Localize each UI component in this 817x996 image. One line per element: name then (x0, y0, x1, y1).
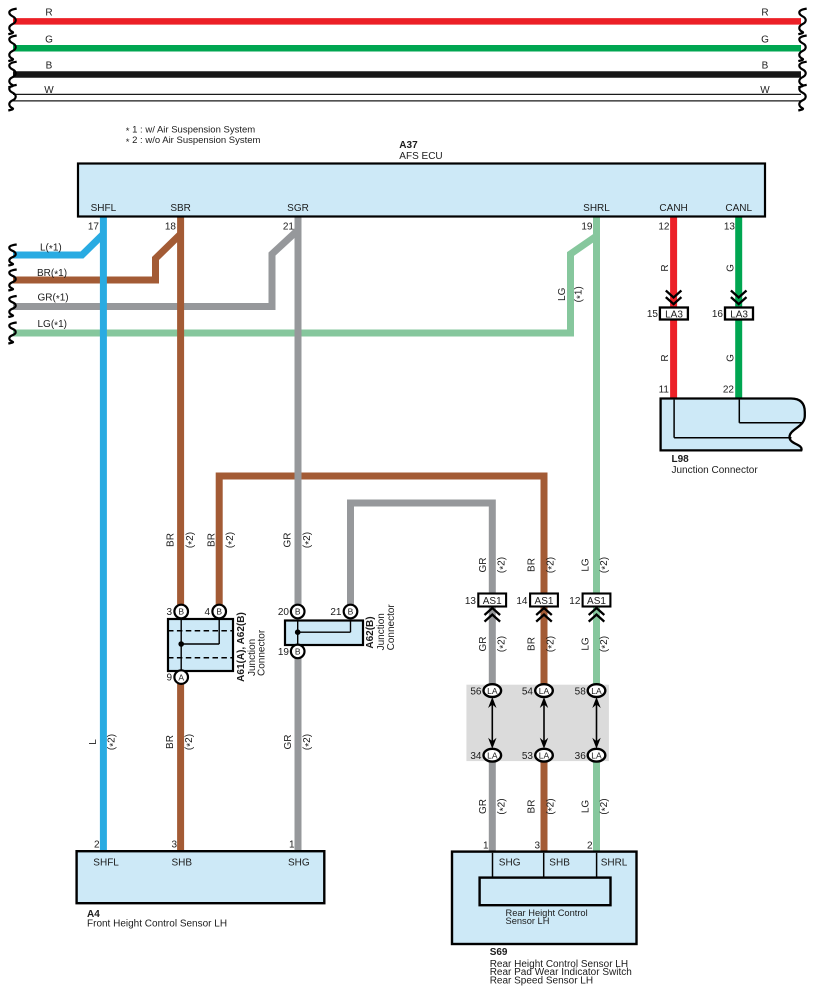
svg-text:12: 12 (658, 222, 670, 233)
svg-text:G: G (761, 34, 769, 45)
svg-text:1: 1 (289, 840, 295, 851)
svg-text:13: 13 (724, 222, 736, 233)
svg-text:BR: BR (526, 800, 537, 814)
connector LA pin 58 (575, 684, 606, 697)
svg-text:(*2): (*2) (599, 557, 612, 573)
svg-text:(*2): (*2) (545, 636, 558, 652)
ECU pin SHRL 19 (581, 203, 610, 233)
wire L main vertical (SHFL pin 17 to A4 pin 2) (100, 217, 107, 852)
svg-text:CANH: CANH (659, 203, 687, 214)
svg-text:3: 3 (534, 840, 540, 851)
svg-text:A37: A37 (399, 140, 418, 151)
connector LA pin 53 (522, 749, 553, 762)
svg-text:A62(B): A62(B) (365, 616, 376, 648)
svg-text:G: G (726, 264, 737, 272)
bus wire B (8, 61, 806, 88)
wire L(*1) stub (8, 234, 103, 266)
wire LG(*1) stub (8, 236, 596, 344)
svg-text:LA: LA (591, 750, 602, 760)
wire LG column (AS1 12 to LA 58) (593, 607, 600, 691)
svg-text:21: 21 (283, 222, 295, 233)
svg-text:R: R (660, 264, 671, 271)
svg-text:Rear Speed Sensor LH: Rear Speed Sensor LH (490, 976, 593, 987)
svg-text:(*1): (*1) (574, 286, 587, 302)
svg-text:(*2): (*2) (599, 636, 612, 652)
svg-text:12: 12 (569, 596, 581, 607)
svg-text:SHRL: SHRL (601, 858, 628, 869)
svg-text:AS1: AS1 (535, 596, 554, 607)
svg-text:B: B (295, 647, 301, 657)
svg-text:CANL: CANL (725, 203, 752, 214)
svg-text:53: 53 (522, 751, 534, 762)
wire BR branch (junction A61 pin 4 up and over to AS1 pin 14) (219, 476, 544, 605)
svg-text:B: B (762, 61, 769, 72)
svg-text:SHB: SHB (549, 858, 570, 869)
wire label GR (*2) above S69 pin 1 (478, 798, 510, 814)
svg-text:A: A (178, 672, 184, 682)
svg-text:LA: LA (539, 686, 550, 696)
wire label LG (*2) above S69 pin 2 (580, 798, 611, 814)
svg-text:A61(A), A62(B): A61(A), A62(B) (236, 612, 247, 682)
svg-text:W: W (760, 85, 770, 96)
svg-text:BR(*1): BR(*1) (37, 268, 67, 281)
svg-text:Front Height Control Sensor LH: Front Height Control Sensor LH (87, 919, 227, 930)
svg-text:B: B (348, 607, 354, 617)
svg-text:SHG: SHG (499, 858, 521, 869)
svg-text:BR: BR (165, 735, 176, 749)
svg-text:B: B (46, 61, 53, 72)
svg-text:(*2): (*2) (184, 734, 197, 750)
svg-text:(*2): (*2) (225, 532, 238, 548)
svg-text:LG: LG (580, 800, 591, 814)
wire label GR (*2) below AS1 13 (478, 636, 510, 652)
svg-text:SHB: SHB (172, 858, 193, 869)
svg-text:LA: LA (487, 750, 498, 760)
junction connector A61 (168, 612, 268, 682)
wire label BR (*2) at main brown upper (166, 532, 198, 548)
svg-text:(*2): (*2) (107, 734, 120, 750)
wire R CANH lower (LA3 to L98 pin 11) (660, 319, 673, 398)
ECU pin CANL 13 (724, 203, 753, 233)
svg-text:3: 3 (171, 840, 177, 851)
wire GR main upper (SGR pin 21 to junction A62 pin 20) (295, 217, 302, 605)
svg-text:18: 18 (165, 222, 177, 233)
S69 pin 3 SHB (534, 840, 570, 868)
svg-text:GR: GR (283, 533, 294, 548)
svg-text:22: 22 (723, 385, 735, 396)
svg-text:LA3: LA3 (665, 310, 683, 321)
wire GR column (LA 34 to S69 pin 1) (489, 755, 496, 852)
wire BR column (LA 53 to S69 pin 3) (541, 755, 548, 852)
svg-text:2: 2 (94, 840, 100, 851)
svg-text:3: 3 (166, 607, 172, 618)
svg-text:2: 2 (587, 840, 593, 851)
link arrow LA56-LA34 (488, 697, 496, 749)
svg-text:(*2): (*2) (545, 798, 558, 814)
ECU pin SGR 21 (283, 203, 309, 233)
svg-text:SHRL: SHRL (583, 203, 610, 214)
svg-text:(*2): (*2) (545, 557, 558, 573)
svg-text:LA: LA (591, 686, 602, 696)
junction A62 pin 20 (278, 605, 305, 619)
svg-text:G: G (726, 354, 737, 362)
sensor S69 box (452, 852, 637, 987)
svg-text:B: B (295, 607, 301, 617)
wire BR main upper (SBR pin 18 to junction A61 pin 3) (177, 217, 184, 605)
svg-text:AS1: AS1 (483, 596, 502, 607)
junction A61 pin 4 (204, 605, 226, 619)
svg-text:16: 16 (712, 309, 724, 320)
wire label BR (*2) above AS1 14 (526, 557, 558, 573)
svg-text:LG: LG (557, 287, 568, 301)
svg-text:R: R (761, 8, 768, 19)
svg-text:S69: S69 (490, 947, 508, 958)
svg-text:SHFL: SHFL (93, 858, 119, 869)
wire R CANH upper (pin 12 to LA3) (660, 217, 673, 308)
svg-text:9: 9 (166, 673, 172, 684)
svg-text:LA: LA (539, 750, 550, 760)
shielded ground panel (466, 685, 609, 761)
svg-text:R: R (660, 354, 671, 361)
svg-text:(*2): (*2) (302, 532, 315, 548)
wire G CANL upper (pin 13 to LA3) (726, 217, 739, 308)
svg-text:SHG: SHG (288, 858, 310, 869)
junction A61 pin 9 (166, 670, 188, 684)
connector AS1 pin 13 (465, 594, 506, 622)
wire GR column (AS1 13 to LA 56) (489, 607, 496, 691)
svg-text:LG: LG (580, 558, 591, 572)
connector LA pin 54 (522, 684, 553, 697)
wire BR main lower (junction A61 pin 9 to A4 pin 3) (177, 684, 184, 852)
svg-text:14: 14 (516, 596, 528, 607)
svg-text:1: 1 (483, 840, 489, 851)
A4 pin 2 SHFL (93, 840, 119, 869)
wire label GR (*2) gray column (283, 734, 315, 750)
wire label GR (*2) at main gray (283, 532, 315, 548)
link arrow LA58-LA36 (592, 697, 600, 749)
svg-text:BR: BR (207, 533, 218, 547)
svg-text:LG(*1): LG(*1) (38, 319, 67, 332)
svg-text:L98: L98 (672, 454, 690, 465)
wire LG column (LA 36 to S69 pin 2) (593, 755, 600, 852)
connector LA3 pin 15 (647, 291, 688, 321)
svg-text:19: 19 (278, 647, 290, 658)
svg-text:36: 36 (575, 751, 587, 762)
note legend (126, 124, 261, 148)
svg-text:Connector: Connector (257, 629, 268, 676)
svg-text:58: 58 (575, 686, 587, 697)
svg-text:13: 13 (465, 596, 477, 607)
svg-text:Connector: Connector (386, 604, 397, 651)
svg-text:Junction Connector: Junction Connector (672, 465, 759, 476)
wire label L (*2) blue column (88, 734, 120, 750)
svg-text:BR: BR (526, 637, 537, 651)
svg-text:(*2): (*2) (599, 798, 612, 814)
svg-text:LA: LA (487, 686, 498, 696)
svg-text:AS1: AS1 (587, 596, 606, 607)
wire GR branch (junction A62 pin 21 up and over to AS1 pin 13) (351, 503, 493, 605)
svg-text:GR: GR (478, 799, 489, 814)
svg-text:21: 21 (330, 607, 342, 618)
svg-text:BR: BR (526, 558, 537, 572)
ECU pin CANH 12 (658, 203, 687, 233)
svg-text:BR: BR (166, 533, 177, 547)
connector LA3 pin 16 (712, 291, 753, 321)
svg-text:34: 34 (470, 751, 482, 762)
svg-text:15: 15 (647, 309, 659, 320)
wire label BR (*2) above S69 pin 3 (526, 798, 558, 814)
connector LA pin 34 (470, 749, 501, 762)
svg-text:(*2): (*2) (497, 798, 510, 814)
svg-text:17: 17 (88, 222, 100, 233)
bus wire R (8, 8, 806, 35)
svg-text:G: G (45, 34, 53, 45)
sensor A4 box (77, 851, 325, 929)
wire label GR (*2) above AS1 13 (478, 557, 510, 573)
link arrow LA54-LA53 (540, 697, 548, 749)
wire BR column (AS1 14 to LA 54) (541, 607, 548, 691)
wire LG main (SHRL pin 19 to AS1 pin 12) (593, 217, 600, 594)
svg-text:19: 19 (581, 222, 593, 233)
wire GR(*1) stub (8, 230, 298, 317)
bus wire G (8, 34, 806, 61)
svg-text:(*2): (*2) (185, 532, 198, 548)
svg-text:W: W (44, 85, 54, 96)
svg-text:LA3: LA3 (730, 310, 748, 321)
connector LA pin 56 (470, 684, 501, 697)
A4 pin 3 SHB (171, 840, 192, 869)
svg-text:SBR: SBR (170, 203, 191, 214)
connector AS1 pin 12 (569, 594, 610, 622)
connector AS1 pin 14 (516, 594, 558, 622)
svg-text:* 2 : w/o Air Suspension Syste: * 2 : w/o Air Suspension System (126, 135, 261, 148)
svg-text:B: B (178, 607, 184, 617)
svg-text:Sensor LH: Sensor LH (506, 916, 550, 926)
junction connector L98 (659, 385, 805, 477)
junction A62 pin 19 (278, 645, 305, 659)
svg-text:L(*1): L(*1) (40, 242, 62, 255)
wire label LG (*2) below AS1 12 (580, 636, 611, 652)
wire GR main lower (junction A62 pin 19 to A4 pin 1) (295, 658, 302, 851)
svg-text:LG: LG (580, 637, 591, 651)
wire label LG (*2) above AS1 12 (580, 557, 611, 573)
wire label BR (*2) brown column (165, 734, 197, 750)
svg-text:SHFL: SHFL (91, 203, 117, 214)
svg-text:GR: GR (478, 558, 489, 573)
ECU A37 box (78, 140, 765, 217)
svg-text:4: 4 (204, 607, 210, 618)
svg-text:(*2): (*2) (302, 734, 315, 750)
svg-text:20: 20 (278, 607, 290, 618)
ECU pin SBR 18 (165, 203, 191, 233)
svg-text:11: 11 (659, 385, 670, 396)
svg-text:L: L (88, 739, 99, 745)
S69 pin 1 SHG (483, 840, 521, 868)
svg-text:54: 54 (522, 686, 534, 697)
A4 pin 1 SHG (288, 840, 310, 869)
ECU pin SHFL 17 (88, 203, 117, 233)
svg-text:GR(*1): GR(*1) (38, 292, 69, 305)
wire BR(*1) stub (8, 234, 180, 291)
wire label BR (*2) below AS1 14 (526, 636, 558, 652)
svg-text:B: B (216, 607, 222, 617)
junction A61 pin 3 (166, 605, 188, 619)
svg-text:AFS ECU: AFS ECU (399, 151, 442, 162)
junction A62 pin 21 (330, 605, 357, 619)
junction connector A62 (285, 604, 397, 651)
svg-text:GR: GR (478, 637, 489, 652)
wire G CANL lower (LA3 to L98 pin 22) (726, 319, 739, 398)
bus wire W (8, 85, 806, 111)
svg-text:(*2): (*2) (497, 636, 510, 652)
svg-text:R: R (45, 8, 52, 19)
wire label BR (*2) at branch brown (207, 532, 238, 548)
svg-text:56: 56 (470, 686, 482, 697)
connector LA pin 36 (575, 749, 606, 762)
svg-text:GR: GR (283, 735, 294, 750)
svg-text:SGR: SGR (287, 203, 309, 214)
svg-text:(*2): (*2) (497, 557, 510, 573)
S69 pin 2 SHRL (587, 840, 628, 868)
